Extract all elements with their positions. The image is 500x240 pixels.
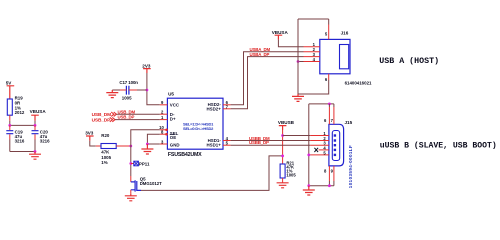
resistor R1 (R19) xyxy=(7,99,12,115)
node junction SEL xyxy=(129,145,132,148)
ground xyxy=(106,90,118,98)
pin 6 stub (shield bottom) xyxy=(328,74,330,80)
svg-text:D+: D+ xyxy=(170,116,176,121)
wire J15 shield top xyxy=(309,103,334,105)
power VBUSB xyxy=(279,126,287,130)
svg-text:USB_DP: USB_DP xyxy=(92,117,112,123)
pin 3 stub xyxy=(160,143,168,145)
svg-text:1005: 1005 xyxy=(122,96,132,101)
pin 2 stub xyxy=(310,140,329,142)
pin 10 stub xyxy=(160,129,168,131)
svg-text:OE: OE xyxy=(170,135,176,140)
svg-text:U5: U5 xyxy=(168,91,174,96)
wire xyxy=(147,73,160,105)
test point PP11 xyxy=(129,162,132,165)
pin 6 stub (shield) xyxy=(329,104,334,107)
node junction xyxy=(328,103,331,106)
svg-text:VBUSA: VBUSA xyxy=(272,30,289,35)
node junction xyxy=(146,89,149,92)
pin 1 stub xyxy=(304,46,320,48)
node junction xyxy=(146,143,149,146)
node junction xyxy=(297,60,300,63)
svg-text:USB_DP: USB_DP xyxy=(118,115,135,120)
pin 1 stub xyxy=(160,119,168,121)
node junction xyxy=(281,134,284,137)
pin 1 stub xyxy=(310,135,329,137)
pin 10 entry dot xyxy=(165,129,168,132)
ground xyxy=(29,152,41,160)
svg-text:1%: 1% xyxy=(101,160,107,165)
svg-text:USB_DM: USB_DM xyxy=(92,112,112,118)
svg-text:USBB_DP: USBB_DP xyxy=(249,140,269,145)
pin 2 stub xyxy=(160,113,168,115)
svg-text:2012: 2012 xyxy=(15,110,25,115)
svg-text:USB A (HOST): USB A (HOST) xyxy=(379,56,439,66)
connector J15 (micro USB B) xyxy=(329,124,344,166)
power 3V3 xyxy=(86,136,94,141)
wire xyxy=(34,121,36,126)
transistor Q1 (Q5 DMG1012T) xyxy=(130,176,132,182)
ground xyxy=(303,186,315,195)
svg-text:USBA_DP: USBA_DP xyxy=(250,52,270,57)
capacitor C19 xyxy=(6,131,13,134)
power VBUSA xyxy=(31,115,39,121)
pin 3 stub xyxy=(310,144,329,146)
node junction xyxy=(307,154,310,157)
svg-text:FSUSB42UMX: FSUSB42UMX xyxy=(168,152,202,158)
pin 4 stub xyxy=(304,61,320,63)
wire HSD2- to USB A pin2 xyxy=(231,52,304,105)
wire HSD1+ to J15 pin3 xyxy=(231,144,311,146)
wire VBUSB down xyxy=(282,130,284,164)
wire xyxy=(116,113,159,115)
node junction xyxy=(34,124,37,127)
op-amp U1 (IC U5 FSUSB42UMX) xyxy=(167,98,223,149)
node junction xyxy=(281,155,284,158)
svg-text:VBUSB: VBUSB xyxy=(278,120,295,125)
connector J16 (USB A) xyxy=(320,39,350,73)
pin 5 stub (shield top) xyxy=(328,25,330,40)
node junction xyxy=(34,150,37,153)
svg-text:uUSB B (SLAVE, USB BOOT): uUSB B (SLAVE, USB BOOT) xyxy=(380,140,497,150)
svg-text:VBUSA: VBUSA xyxy=(30,109,47,114)
wire OE to gnd xyxy=(147,134,159,144)
svg-text:5V: 5V xyxy=(6,80,13,85)
pin 4 stub with no-connect X xyxy=(319,149,329,151)
power VBUSA top xyxy=(275,35,283,39)
pin 2 stub xyxy=(304,51,320,53)
pin 8,9 stubs (shield bottom) xyxy=(329,166,334,181)
svg-text:1005: 1005 xyxy=(286,173,296,178)
svg-text:HSD2+: HSD2+ xyxy=(207,106,222,111)
capacitor C17 xyxy=(126,86,128,95)
pin 9 stub xyxy=(160,104,168,106)
ground xyxy=(125,194,137,201)
wire shield bottom xyxy=(309,185,334,187)
ground xyxy=(292,94,304,101)
power 2V3 xyxy=(143,69,151,73)
svg-text:J15: J15 xyxy=(345,120,353,125)
wire J16 shield top xyxy=(298,18,329,20)
svg-text:DMG1012T: DMG1012T xyxy=(140,181,162,186)
wire xyxy=(10,151,35,153)
pin 5 stub xyxy=(310,154,329,156)
svg-text:GND: GND xyxy=(170,143,180,148)
node junction xyxy=(328,184,331,187)
wire SEL up to pin10 xyxy=(131,130,160,146)
resistor R3 (R21) xyxy=(280,164,285,178)
wire HSD1- to J15 pin2 xyxy=(231,140,311,142)
capacitor C20 xyxy=(32,131,39,134)
svg-text:SEL=0:D<->HSD2: SEL=0:D<->HSD2 xyxy=(183,126,214,131)
svg-text:C17 100n: C17 100n xyxy=(119,80,138,85)
node junction xyxy=(307,184,310,187)
pin 4 stub xyxy=(223,140,231,142)
wire xyxy=(90,141,96,146)
resistor R2 (R20) xyxy=(96,145,101,147)
pin 8 stub xyxy=(160,133,168,135)
svg-text:3V3: 3V3 xyxy=(85,131,94,136)
node junction xyxy=(8,124,11,127)
pin 6 stub xyxy=(223,104,231,106)
wire xyxy=(10,124,35,126)
pin 7 stub xyxy=(223,108,231,110)
wire VBUSB to J15 pin1 xyxy=(283,135,311,137)
svg-text:61400416021: 61400416021 xyxy=(345,80,372,85)
svg-text:3216: 3216 xyxy=(15,138,25,143)
svg-text:10103594-0001LF: 10103594-0001LF xyxy=(348,145,353,188)
svg-text:J16: J16 xyxy=(341,31,349,36)
pin 3 stub xyxy=(304,56,320,58)
svg-text:HSD1+: HSD1+ xyxy=(207,143,222,148)
svg-text:VCC: VCC xyxy=(170,102,180,107)
svg-text:3216: 3216 xyxy=(40,138,50,143)
svg-text:2V3: 2V3 xyxy=(142,63,151,68)
power 5V xyxy=(7,86,15,99)
ground xyxy=(141,144,153,154)
wire xyxy=(115,119,160,121)
wire HSD2+ to USB A pin3 xyxy=(231,57,304,109)
wire shield bottom to ground xyxy=(298,80,329,94)
ground xyxy=(277,183,289,188)
wire SEL down xyxy=(130,146,132,176)
svg-text:PP11: PP11 xyxy=(139,161,150,166)
svg-text:R20: R20 xyxy=(101,133,110,138)
wire xyxy=(9,115,11,121)
pin 5 stub xyxy=(223,144,231,146)
wire VBUSA to J16 pin1 xyxy=(278,40,303,47)
wire pin4 to ground xyxy=(298,61,304,63)
wire Q5 gate net xyxy=(141,156,283,191)
